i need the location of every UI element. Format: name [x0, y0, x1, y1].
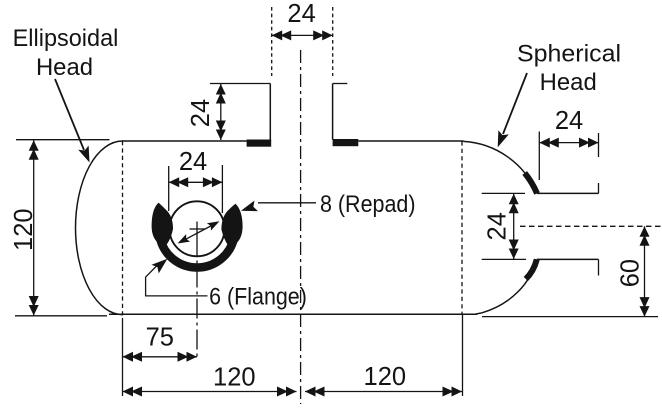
- spherical head upper arc: [463, 141, 537, 193]
- right nozzle dim 24 top extension line: [482, 192, 525, 194]
- svg-text:120: 120: [213, 363, 256, 391]
- flange vertical centerline going down (dash-dot): [196, 237, 198, 361]
- svg-text:120: 120: [10, 208, 38, 251]
- arrows: dim 120 bottom-right: [305, 387, 325, 397]
- top nozzle right wall top tick: [333, 83, 348, 85]
- top nozzle right wall: [332, 84, 334, 140]
- flange dim 24 dimension line: [169, 181, 223, 183]
- shell top line right segment: [358, 140, 463, 142]
- arrows: dim 120 left: [29, 140, 39, 160]
- right nozzle dim 24 bottom extension line: [482, 258, 526, 260]
- repad label leader line: [258, 202, 316, 204]
- svg-text:24: 24: [555, 107, 583, 135]
- dim 120 bottom-right dimension line: [305, 391, 462, 393]
- right nozzle bottom wall end tick: [598, 259, 600, 275]
- top-right dim 24 left extension line: [538, 132, 540, 181]
- ellipsoidal head label leader line: [55, 79, 84, 150]
- arrows: dim 24 top nozzle: [272, 30, 292, 40]
- svg-text:8 (Repad): 8 (Repad): [320, 191, 416, 218]
- right nozzle dashed centerline: [520, 225, 662, 227]
- arrows: dim 75: [123, 352, 143, 362]
- svg-text:Head: Head: [36, 54, 93, 81]
- shell bottom line: [109, 313, 477, 315]
- flange circle: [170, 201, 225, 256]
- arrow: spherical head leader: [492, 130, 508, 149]
- arrows: dim 60: [640, 226, 650, 246]
- svg-text:24: 24: [187, 99, 215, 127]
- svg-text:24: 24: [287, 0, 315, 28]
- svg-text:60: 60: [617, 259, 645, 287]
- svg-text:24: 24: [484, 212, 512, 240]
- svg-text:120: 120: [364, 363, 407, 391]
- spherical head lower arc thick repad segment: [526, 259, 537, 279]
- dim 120 left: bottom extension line: [15, 315, 107, 317]
- repad left wedge: [152, 204, 172, 245]
- ellipsoidal head tangent dashed line: [122, 141, 124, 316]
- right nozzle dim 24 dimension line: [513, 194, 515, 259]
- top nozzle repad right block: [333, 139, 359, 146]
- arrows: flange dim 24: [169, 177, 189, 187]
- right nozzle top wall: [537, 192, 599, 194]
- svg-text:6 (Flange): 6 (Flange): [209, 284, 307, 311]
- dim 75 dimension line: [123, 356, 198, 358]
- top nozzle dim 24 dashed extension lines: [271, 7, 273, 76]
- top-right dim 24 dimension line: [539, 142, 598, 144]
- dim 120 left: top extension line: [16, 139, 110, 141]
- flange thick bottom arc: [160, 239, 234, 268]
- dim 60 bottom extension line: [482, 316, 658, 318]
- vessel vertical centerline (dash-dot): [300, 50, 302, 404]
- flange dim 24 extension lines: [168, 166, 170, 211]
- spherical head lower arc: [476, 259, 537, 314]
- svg-text:Head: Head: [540, 69, 597, 96]
- flange inner diameter diagonal line: [183, 224, 215, 241]
- left nozzle height dim 24 dimension line: [220, 84, 222, 140]
- top nozzle left wall top tick + dim extension: [210, 83, 270, 85]
- arrow: repad leader: [239, 201, 258, 217]
- spherical head tangent dashed line: [461, 141, 463, 313]
- dim 60 dimension line: [644, 226, 646, 316]
- top nozzle repad left block: [247, 140, 272, 147]
- dim 75 left extension line (shared with 120): [122, 318, 124, 396]
- flange label leader polyline: [146, 265, 208, 296]
- arrow: ellipsoidal head leader: [78, 146, 94, 165]
- dim 120 right extension line: [462, 314, 464, 396]
- repad right wedge: [222, 205, 242, 245]
- flange center cross: [190, 228, 206, 230]
- arrows: top-right dim 24: [539, 138, 559, 148]
- arrows: right nozzle dim 24: [509, 194, 519, 214]
- ellipsoidal head curve: [75, 141, 122, 315]
- right nozzle top wall end tick: [598, 183, 600, 193]
- spherical head upper arc thick repad segment: [525, 173, 537, 193]
- dim 120 left: dimension line: [33, 140, 35, 315]
- arrows: flange inner diagonal: [207, 218, 222, 231]
- dim 120 bottom-left dimension line: [123, 391, 297, 393]
- arrows: dim 120 bottom-left: [123, 387, 143, 397]
- right nozzle bottom wall: [537, 258, 599, 260]
- top nozzle left wall: [269, 84, 271, 141]
- svg-text:Spherical: Spherical: [517, 41, 621, 68]
- svg-text:Ellipsoidal: Ellipsoidal: [13, 25, 119, 52]
- svg-text:24: 24: [179, 148, 207, 176]
- arrow: flange leader: [152, 255, 171, 274]
- arrows: dim 24 left nozzle vertical: [216, 84, 226, 104]
- shell top line left segment: [122, 140, 247, 142]
- spherical head label leader line: [503, 73, 527, 134]
- top nozzle dim 24 dimension line: [272, 34, 333, 36]
- svg-text:75: 75: [146, 324, 174, 352]
- top-right dim 24 right extension line: [598, 133, 600, 157]
